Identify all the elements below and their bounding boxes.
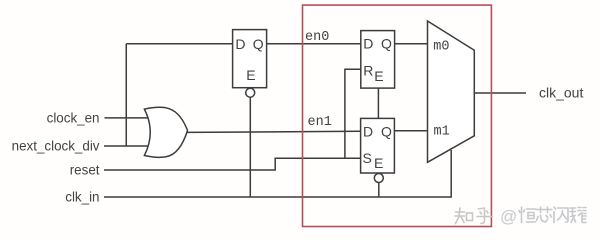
svg-text:E: E (374, 68, 383, 84)
svg-text:en0: en0 (305, 30, 329, 45)
svg-text:clock_en: clock_en (47, 111, 100, 126)
svg-text:Q: Q (253, 36, 264, 52)
svg-text:clk_in: clk_in (65, 190, 99, 205)
svg-text:m1: m1 (434, 125, 450, 140)
svg-text:E: E (246, 67, 255, 83)
svg-text:D: D (363, 124, 373, 140)
svg-text:Q: Q (381, 124, 392, 140)
svg-text:D: D (363, 36, 373, 52)
svg-text:Q: Q (381, 36, 392, 52)
svg-text:next_clock_div: next_clock_div (12, 139, 100, 154)
svg-text:clk_out: clk_out (539, 84, 583, 100)
svg-text:S: S (363, 150, 372, 166)
svg-text:m0: m0 (433, 39, 449, 54)
svg-text:D: D (235, 36, 245, 52)
svg-text:reset: reset (70, 163, 100, 178)
svg-text:R: R (363, 63, 373, 79)
svg-text:@: @ (500, 207, 517, 226)
svg-text:en1: en1 (308, 115, 332, 130)
svg-text:E: E (374, 155, 383, 171)
